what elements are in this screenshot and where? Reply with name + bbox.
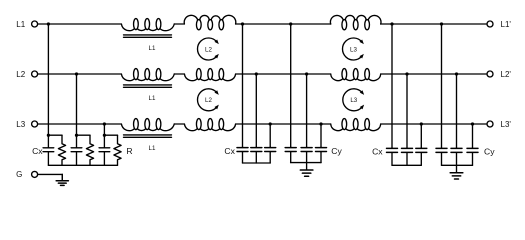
choke L3 coupling arrow lower (343, 89, 364, 111)
capacitor Cx-A3 (265, 147, 276, 163)
choke L2 winding row L2 (184, 69, 235, 81)
node RC pair 1 top (47, 134, 50, 137)
label L2 (16, 70, 25, 79)
capacitor Cy-D1 (436, 148, 447, 166)
terminal L3-prime (output) (487, 121, 493, 127)
terminal G (ground input) (32, 171, 38, 177)
svg-text:L1: L1 (149, 95, 156, 102)
choke L3 coupling arrow upper (343, 38, 364, 60)
node L3 Cx-C tap (420, 122, 423, 125)
inductor L1 (L3 phase) coil (121, 119, 174, 131)
wire L1 row segment 3 (236, 23, 331, 25)
wire L1 row segment 1 (38, 23, 122, 25)
wire tap L2 to Cx bank C (406, 74, 408, 148)
wire RC bank bottom rail (48, 164, 117, 166)
node L3 Cy-B tap (319, 122, 322, 125)
capacitor Cx-A1 (237, 147, 248, 163)
ground (Cy bank D) (450, 165, 463, 179)
wire tap L1 to Cy bank D (441, 24, 443, 148)
wire tap L3 to Cy bank B (320, 124, 322, 147)
inductor L1 (L2 phase) coil (121, 69, 174, 81)
choke L2 winding row L1 (184, 15, 236, 29)
capacitor Cy-D3 (467, 148, 478, 166)
wire L3 row segment 4 (381, 123, 487, 125)
wire tap L1 to input RC bank (47, 24, 49, 135)
svg-text:Cx: Cx (224, 146, 235, 156)
svg-text:L1: L1 (149, 45, 156, 52)
terminal L1-prime (output) (487, 21, 493, 27)
capacitor Cx3 (input) (99, 135, 110, 165)
capacitor Cx1 (input) (43, 135, 54, 165)
wire L2 row segment 4 (381, 73, 487, 75)
label Cx (bank C) (372, 147, 383, 157)
wire tap L2 to Cy bank D (456, 74, 458, 148)
ground (G terminal) (56, 174, 68, 185)
inductor L1 (L1 phase) core (124, 35, 172, 37)
capacitor Cx-A2 (251, 147, 262, 163)
resistor R1 (58, 135, 65, 165)
svg-text:Cx: Cx (372, 147, 383, 157)
choke L3 winding row L2 (331, 69, 381, 81)
svg-text:L2: L2 (205, 97, 212, 104)
wire L3 row segment 1 (38, 123, 122, 125)
choke L2 coupling arrow upper (198, 38, 219, 60)
capacitor Cx-C1 (387, 148, 398, 166)
label L3-prime (501, 120, 512, 129)
wire L3 row segment 2 (174, 123, 184, 125)
svg-text:L3: L3 (16, 120, 25, 129)
label L1-prime (501, 20, 512, 29)
wire tap L2 to Cx bank A (255, 74, 257, 147)
svg-text:L2: L2 (205, 46, 212, 53)
svg-text:Cy: Cy (331, 146, 342, 156)
wire L3 row segment 3 (236, 123, 331, 125)
wire Cx bank A bottom rail (243, 162, 271, 164)
node L2 Cx-C tap (405, 72, 408, 75)
svg-text:L3': L3' (501, 120, 512, 129)
choke L3 winding row L3 (331, 119, 381, 131)
choke L3 winding row L1 (330, 15, 381, 29)
resistor R3 (114, 135, 121, 165)
wire RC pair 2 top rail (77, 134, 91, 136)
wire tap L1 to Cx bank A (242, 24, 244, 147)
svg-text:L1: L1 (16, 20, 25, 29)
wire L2 row segment 3 (236, 73, 331, 75)
node L3 Cx-A tap (269, 122, 272, 125)
label L1 (L2 phase) (149, 95, 156, 102)
svg-text:Cy: Cy (484, 147, 495, 157)
node L1 Cy-D tap (440, 22, 443, 25)
label L3 (16, 120, 25, 129)
wire RC pair 3 top rail (104, 134, 117, 136)
wire tap L3 to Cy bank D (472, 124, 474, 148)
terminal L2-prime (output) (487, 71, 493, 77)
wire RC pair 1 top rail (48, 134, 62, 136)
wire tap L2 to input RC bank (76, 74, 78, 135)
inductor L1 (L1 phase) coil (121, 19, 174, 31)
node L1 Cy-B tap (289, 22, 292, 25)
svg-text:L1': L1' (501, 20, 512, 29)
svg-text:L1: L1 (149, 145, 156, 152)
wire tap L3 to Cx bank C (420, 124, 422, 148)
capacitor Cx2 (input) (71, 135, 82, 165)
node L2 Cx-A tap (255, 72, 258, 75)
wire L2 row segment 1 (38, 73, 122, 75)
inductor L1 (L2 phase) core (124, 85, 172, 87)
node L3 tap (103, 122, 106, 125)
node L2 Cy-D tap (455, 72, 458, 75)
wire Cy bank B bottom rail (291, 162, 321, 164)
label L2-prime (501, 70, 512, 79)
terminal L1 (input) (32, 21, 38, 27)
wire L1 row segment 4 (381, 23, 487, 25)
svg-text:Cx: Cx (32, 146, 43, 156)
label L1 (16, 20, 25, 29)
wire tap L1 to Cx bank C (391, 24, 393, 148)
node L1 tap (47, 22, 50, 25)
label Cx (input bank) (32, 146, 43, 156)
ground (Cy bank B) (300, 163, 313, 177)
capacitor Cy-B2 (301, 147, 312, 163)
wire tap L2 to Cy bank B (306, 74, 308, 147)
terminal L2 (input) (32, 71, 38, 77)
choke L2 winding row L3 (184, 119, 235, 131)
wire Cy bank D bottom rail (442, 164, 473, 166)
wire tap L3 to input RC bank (103, 124, 105, 135)
node L1 Cx-A tap (241, 22, 244, 25)
svg-text:L2': L2' (501, 70, 512, 79)
capacitor Cx-C2 (402, 148, 413, 166)
svg-text:L3: L3 (350, 46, 357, 53)
label L1 (L3 phase) (149, 145, 156, 152)
capacitor Cy-B3 (316, 147, 327, 163)
node L2 tap (75, 72, 78, 75)
terminal L3 (input) (32, 121, 38, 127)
resistor R2 (86, 135, 93, 165)
label G (16, 170, 22, 179)
wire tap L3 to Cx bank A (269, 124, 271, 147)
svg-text:R: R (126, 146, 132, 156)
node L1 Cx-C tap (390, 22, 393, 25)
inductor L1 (L3 phase) core (124, 135, 172, 137)
label Cy (bank B) (331, 146, 342, 156)
svg-text:L2: L2 (16, 70, 25, 79)
node RC pair 2 top (75, 134, 78, 137)
capacitor Cx-C3 (416, 148, 427, 166)
choke L2 coupling arrow lower (198, 89, 219, 111)
node L2 Cy-B tap (305, 72, 308, 75)
label R (126, 146, 132, 156)
node L3 Cy-D tap (471, 122, 474, 125)
svg-text:L3: L3 (350, 97, 357, 104)
wire G to chassis (38, 174, 63, 180)
capacitor Cy-D2 (451, 148, 462, 166)
wire Cx bank C bottom rail (392, 164, 421, 166)
wire L2 row segment 2 (174, 73, 184, 75)
label Cx (bank A) (224, 146, 235, 156)
svg-text:G: G (16, 170, 22, 179)
wire L1 row segment 2 (174, 23, 184, 25)
wire tap L1 to Cy bank B (290, 24, 292, 147)
capacitor Cy-B1 (285, 147, 296, 163)
label Cy (bank D) (484, 147, 495, 157)
node RC pair 3 top (103, 134, 106, 137)
label L1 (L1 phase) (149, 45, 156, 52)
